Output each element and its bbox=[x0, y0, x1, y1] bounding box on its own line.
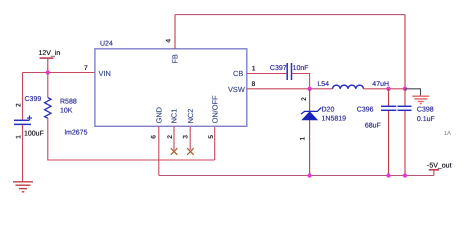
svg-text:C398: C398 bbox=[417, 107, 434, 114]
svg-text:VSW: VSW bbox=[228, 85, 245, 94]
svg-text:NC1: NC1 bbox=[170, 109, 179, 124]
svg-text:-5V_out: -5V_out bbox=[427, 162, 452, 169]
wire right rail down bbox=[404, 15, 406, 89]
wire FB stub bbox=[174, 15, 176, 49]
wire VIN net horizontal bbox=[23, 72, 95, 74]
svg-text:1A: 1A bbox=[444, 130, 451, 137]
capacitor C398 bbox=[398, 89, 435, 176]
no-connect X on NC1 bbox=[171, 148, 178, 155]
svg-text:1: 1 bbox=[299, 137, 306, 141]
svg-text:NC2: NC2 bbox=[186, 109, 195, 124]
wire R588 bottom bbox=[48, 118, 215, 160]
svg-text:4: 4 bbox=[166, 39, 173, 43]
wire NC2 stub bbox=[189, 126, 191, 150]
node C398 junction top bbox=[403, 87, 407, 91]
wire to right ground bbox=[405, 89, 421, 96]
svg-text:C397: C397 bbox=[270, 65, 287, 72]
svg-text:12V_in: 12V_in bbox=[39, 49, 61, 57]
node D20 bottom junction bbox=[307, 173, 311, 177]
svg-text:ON/OFF: ON/OFF bbox=[210, 95, 219, 123]
wire C399 to ground bbox=[22, 125, 24, 182]
wire C397 to VSW node bbox=[292, 74, 310, 89]
svg-text:1: 1 bbox=[16, 135, 23, 139]
node C398 bottom junction bbox=[403, 173, 407, 177]
wire ON/OFF stub bbox=[214, 126, 216, 160]
no-connect X on NC2 bbox=[187, 148, 194, 155]
svg-text:2: 2 bbox=[167, 135, 174, 139]
wire bottom -5V rail bbox=[159, 175, 434, 177]
node VSW junction bbox=[307, 87, 311, 91]
capacitor C399 bbox=[14, 96, 44, 139]
svg-text:1N5819: 1N5819 bbox=[322, 116, 347, 123]
wire top rail bbox=[175, 14, 405, 16]
power symbol 12V_in bbox=[39, 49, 61, 73]
svg-text:FB: FB bbox=[170, 54, 179, 64]
svg-text:0.1uF: 0.1uF bbox=[417, 116, 435, 123]
wire NC1 stub bbox=[173, 126, 175, 150]
svg-text:8: 8 bbox=[252, 81, 256, 88]
ground (left) bbox=[13, 182, 33, 192]
wire to C399 bbox=[22, 73, 24, 121]
svg-text:R588: R588 bbox=[60, 99, 77, 106]
diode D20 1N5819 bbox=[299, 89, 346, 176]
svg-text:10nF: 10nF bbox=[293, 65, 309, 72]
capacitor C397 bbox=[270, 63, 309, 80]
ground (right) bbox=[412, 96, 429, 103]
power symbol -5V_out bbox=[427, 162, 452, 175]
svg-text:47uH: 47uH bbox=[372, 81, 389, 88]
svg-text:CB: CB bbox=[233, 69, 243, 78]
svg-text:3: 3 bbox=[182, 135, 189, 139]
node 12V junction bbox=[46, 70, 50, 74]
svg-text:7: 7 bbox=[84, 65, 88, 72]
capacitor C396 bbox=[357, 89, 397, 176]
svg-text:GND: GND bbox=[155, 107, 164, 123]
svg-text:D20: D20 bbox=[322, 107, 335, 114]
svg-text:6: 6 bbox=[150, 135, 157, 139]
wire VSW line bbox=[247, 88, 333, 90]
node C396 junction top bbox=[386, 87, 390, 91]
wire inductor to gnd node bbox=[364, 88, 406, 90]
svg-text:VIN: VIN bbox=[99, 69, 111, 78]
node C396 bottom junction bbox=[386, 173, 390, 177]
wire CB stub bbox=[247, 73, 287, 75]
resistor R588 bbox=[45, 98, 77, 119]
svg-text:100uF: 100uF bbox=[24, 131, 44, 138]
inductor L54 bbox=[317, 81, 389, 89]
svg-text:2: 2 bbox=[301, 97, 308, 101]
wire GND stub down bbox=[158, 126, 160, 175]
svg-text:5: 5 bbox=[208, 135, 215, 139]
svg-text:lm2675: lm2675 bbox=[65, 129, 88, 137]
wire to R588 bbox=[47, 73, 49, 98]
svg-text:2: 2 bbox=[15, 103, 22, 107]
svg-text:U24: U24 bbox=[100, 41, 113, 48]
svg-text:C399: C399 bbox=[25, 96, 42, 103]
svg-text:1: 1 bbox=[252, 66, 256, 73]
svg-text:10K: 10K bbox=[60, 108, 73, 115]
IC U24 lm2675 regulator body bbox=[65, 41, 247, 137]
svg-text:68uF: 68uF bbox=[365, 123, 381, 130]
svg-text:C396: C396 bbox=[357, 107, 374, 114]
svg-text:L54: L54 bbox=[317, 81, 329, 88]
